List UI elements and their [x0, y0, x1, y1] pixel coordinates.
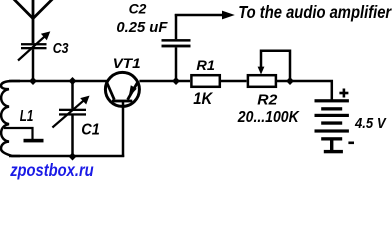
- battery minus sign: [348, 142, 354, 145]
- node antenna/tank junction: [29, 77, 37, 85]
- node R2 wiper junction: [286, 77, 294, 85]
- antenna WA1: [14, 0, 53, 43]
- node C2 bottom junction: [172, 77, 180, 85]
- transistor VT1: [105, 72, 139, 157]
- capacitor C1 (variable): [52, 81, 89, 156]
- capacitor C3 (variable): [18, 31, 50, 60]
- inductor L1: [1, 81, 20, 156]
- wire bottom bus: [9, 155, 124, 158]
- svg-text:R2: R2: [257, 91, 278, 108]
- resistor R1: [191, 75, 219, 87]
- svg-text:C2: C2: [129, 1, 147, 16]
- wire R2 to battery: [277, 81, 332, 100]
- svg-text:To the audio amplifier: To the audio amplifier: [238, 2, 392, 22]
- svg-text:0.25 uF: 0.25 uF: [116, 19, 168, 36]
- R2 wiper arrow: [258, 51, 290, 81]
- ground bar (tap terminal): [24, 139, 44, 143]
- battery GB1 4.5V: [315, 99, 349, 153]
- svg-text:20...100K: 20...100K: [237, 109, 300, 126]
- svg-text:4.5 V: 4.5 V: [354, 115, 387, 132]
- wire collector to R1: [139, 80, 190, 83]
- L1 tap wire: [4, 128, 33, 139]
- capacitor C2: [162, 14, 191, 81]
- node C1 top junction: [69, 77, 77, 85]
- svg-text:C1: C1: [81, 122, 100, 139]
- svg-text:C3: C3: [53, 41, 69, 57]
- battery plus sign: [339, 89, 348, 98]
- svg-text:zpostbox.ru: zpostbox.ru: [9, 160, 93, 180]
- svg-text:R1: R1: [196, 58, 215, 73]
- svg-text:VT1: VT1: [113, 56, 141, 71]
- wire C3 to tank: [32, 49, 35, 82]
- wire tank top: [9, 80, 108, 83]
- svg-text:L1: L1: [20, 108, 34, 125]
- svg-text:1K: 1K: [193, 89, 214, 108]
- wire to audio output arrow: [175, 11, 235, 20]
- resistor R2 (potentiometer): [248, 75, 276, 87]
- node C1 bottom junction: [69, 153, 77, 161]
- wire R1 to R2: [221, 80, 247, 83]
